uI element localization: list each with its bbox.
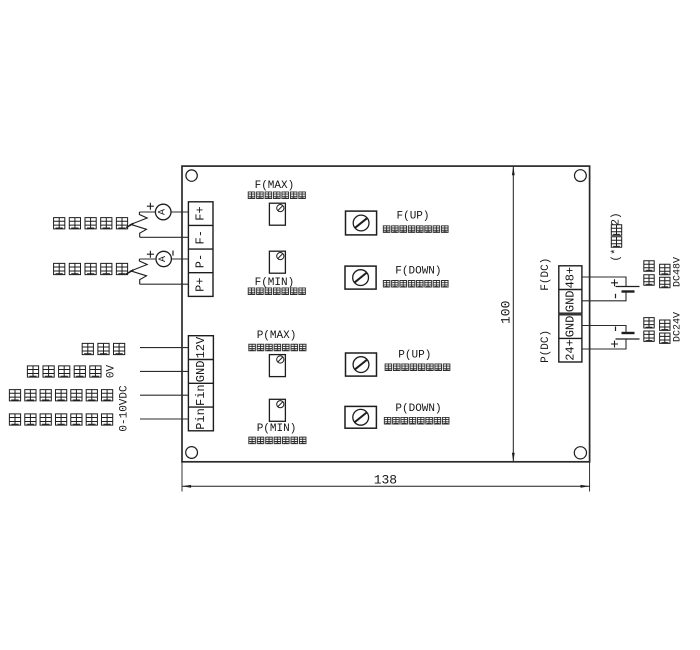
extension line right [589,462,591,492]
svg-text:2): 2) [611,212,623,225]
label 输入 (BT2) [660,320,670,343]
mounting hole bottom-left [186,447,198,459]
svg-text:GND: GND [194,361,208,383]
svg-text:P(MIN): P(MIN) [257,423,297,435]
board outline (PCB) [182,166,590,462]
label 电源 (BT2) [644,318,654,342]
adjust arrow on coil L2 [126,270,133,274]
svg-text:F(MIN): F(MIN) [255,277,295,289]
svg-text:F(DOWN): F(DOWN) [395,266,441,278]
trimmer potentiometer F(MAX) [269,203,285,225]
wire coil L1 to F- [140,236,189,238]
svg-text:24+: 24+ [563,339,577,361]
battery BT2 (DC24V) [616,333,640,339]
trimmer potentiometer F(MIN) [269,251,285,273]
polarity + BT1 [611,279,618,286]
label 压力最小值调整 [249,437,306,444]
label 压力下降斜率调整 [384,417,449,424]
label 压力最大值调整 [249,344,306,351]
wire ammeter A1 to coil L1 [139,211,155,213]
svg-text:P(DC): P(DC) [540,330,552,363]
label 压力上升斜率调整 [385,364,450,371]
wire GND to battery BT2 [582,326,626,334]
label 流量下降斜率调整 [383,281,448,288]
svg-text:F(MAX): F(MAX) [255,180,295,192]
label 输入 (BT1) [660,264,670,287]
terminal block J2 (12V GND Fin Pin) [188,336,213,431]
wire 24+ to battery BT2 [582,339,626,349]
adjust arrow on coil L1 [126,223,133,227]
polarity - (circuit 2) [172,251,174,256]
battery BT1 (DC48V) [616,287,640,292]
svg-text:0-10VDC: 0-10VDC [118,385,130,432]
wire 48+ to battery BT1 [582,277,626,287]
trimmer potentiometer P(MAX) [269,355,285,377]
svg-text:P-: P- [194,254,208,268]
dimension arrow right [581,485,590,488]
adjustment screw F(UP) [346,211,377,235]
label 不接线 [82,343,125,354]
ammeter A2 [156,251,171,266]
svg-text:GND: GND [563,290,577,312]
terminal block J3 (48+ GND) [559,266,582,313]
svg-text:P(DOWN): P(DOWN) [395,403,441,415]
svg-text:F(UP): F(UP) [396,210,429,222]
wire ammeter A2 to coil L2 [139,258,156,260]
terminal block J1 (F+ F- P- P+) [188,202,213,297]
dimension arrow left [182,485,191,488]
coil L1 (proportional flow valve solenoid) [131,212,147,237]
polarity - BT1 [615,294,617,299]
mounting hole bottom-right [574,447,586,459]
dimension line 138 (horizontal) [182,485,590,487]
svg-text:F(DC): F(DC) [540,258,552,291]
svg-text:12V: 12V [194,336,208,358]
svg-text:100: 100 [499,301,514,324]
svg-text:(*: (* [611,248,623,261]
extension line left [181,462,183,492]
terminal block J4 (GND 24+) [559,315,582,362]
label 电源 (BT1) [644,261,654,285]
svg-text:A: A [158,209,169,215]
svg-text:A: A [158,256,169,262]
label 流量最小值调整 [248,288,305,295]
mounting hole top-right [575,170,587,182]
wire P- to ammeter A2 [171,258,188,260]
polarity + (circuit 1) [147,203,154,210]
adjustment screw P(DOWN) [345,406,376,428]
label 比例压力阀 [54,263,128,274]
wire F+ to ammeter A1 [171,211,188,213]
svg-text:P+: P+ [194,277,208,291]
label 压力阀信号输入 [9,414,112,425]
mounting hole top-left [186,170,197,181]
svg-text:48+: 48+ [563,267,577,289]
svg-text:GND: GND [563,316,577,338]
wire Pin pressure signal [140,418,188,420]
adjustment screw F(DOWN) [345,266,376,289]
label 流量阀信号输入 [9,390,112,401]
ammeter A1 [155,204,171,220]
coil L2 (proportional pressure valve solenoid) [131,259,147,284]
label 注明 [611,225,621,247]
svg-text:138: 138 [374,472,397,487]
trimmer potentiometer P(MIN) [269,399,285,421]
wire GND signal ground [140,370,188,372]
polarity + (circuit 2) [147,251,154,258]
label 比例流量阀 [54,218,128,229]
label 流量最大值调整 [248,192,305,199]
dimension arrow up [512,166,515,175]
wire Fin flow signal [140,394,188,396]
svg-text:DC48V: DC48V [672,257,683,287]
polarity - BT2 [615,327,617,332]
adjustment screw P(UP) [346,353,377,376]
svg-text:DC24V: DC24V [672,312,683,342]
svg-text:F-: F- [194,230,208,244]
polarity + BT2 [611,341,618,348]
wire 12V (not connected) [140,347,188,349]
svg-text:Fin: Fin [194,384,208,406]
label 信号输入地 [27,366,101,377]
dimension arrow down [512,453,515,462]
svg-text:0V: 0V [106,365,118,379]
svg-text:P(UP): P(UP) [398,350,431,362]
label 流量上升斜率调整 [383,226,448,233]
dimension line 100 (vertical) [512,166,514,462]
svg-text:Pin: Pin [194,408,208,430]
svg-text:F+: F+ [194,206,208,220]
svg-text:P(MAX): P(MAX) [257,330,297,342]
wire coil L2 to P+ [140,283,189,285]
wire GND to battery BT1 [582,292,626,301]
